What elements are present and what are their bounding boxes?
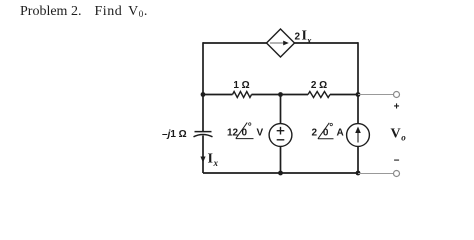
wire: middle vertical upper (node to voltage source) <box>280 95 282 124</box>
svg-text:x: x <box>306 36 312 46</box>
svg-text:−: − <box>394 156 400 167</box>
voltage source minus sign <box>277 139 285 141</box>
wire: right vertical lower (current source to bottom rail) <box>357 146 359 173</box>
svg-text:x: x <box>213 158 219 168</box>
svg-text:+: + <box>394 102 400 113</box>
svg-text:o: o <box>401 132 406 142</box>
wire: right vertical upper (top rail to current source) <box>357 42 359 123</box>
node dot center-bottom <box>278 171 283 176</box>
svg-text:0: 0 <box>242 127 248 138</box>
node dot center-mid <box>278 92 283 97</box>
wire: middle rail with resistor gaps <box>203 94 358 96</box>
terminal lower open circle <box>394 171 400 177</box>
node dot right-mid <box>356 92 361 97</box>
wire: bottom rail <box>203 172 358 174</box>
capacitor -j1 ohm top plate <box>195 131 212 133</box>
svg-text:2 Ω: 2 Ω <box>311 80 327 91</box>
svg-text:–j1 Ω: –j1 Ω <box>162 129 187 140</box>
svg-text:1 Ω: 1 Ω <box>233 80 249 91</box>
wire: left vertical upper (top rail to capacitor) <box>202 42 204 131</box>
wire: thin lead to lower terminal <box>358 173 393 175</box>
svg-text:°: ° <box>248 122 252 133</box>
dependent source arrow <box>270 42 284 44</box>
wire: top rail right segment <box>295 42 359 44</box>
wire: top rail left segment <box>203 42 267 44</box>
capacitor -j1 ohm bottom curved plate <box>194 135 213 137</box>
svg-text:2: 2 <box>295 32 301 43</box>
svg-text:2: 2 <box>312 128 318 139</box>
svg-text:V: V <box>257 127 264 138</box>
dependent current source diamond 2Ix <box>267 29 295 57</box>
svg-text:0: 0 <box>323 128 329 139</box>
svg-text:A: A <box>337 128 344 139</box>
node dot right-bottom <box>356 171 361 176</box>
terminal upper open circle <box>394 92 400 98</box>
svg-text:V: V <box>391 126 401 141</box>
svg-text:I: I <box>208 152 213 167</box>
wire: middle vertical lower (voltage source to bottom rail) <box>280 146 282 173</box>
title: Problem 2. Find V0. <box>20 4 148 20</box>
wire: thin lead to upper terminal <box>358 94 393 96</box>
node dot left-mid <box>201 92 206 97</box>
wire: left vertical lower (capacitor to bottom rail) <box>202 136 204 174</box>
svg-text:°: ° <box>329 122 333 133</box>
resistor R 2ohm zigzag <box>308 92 330 98</box>
voltage source plus sign <box>277 127 285 135</box>
current source I1 circle <box>347 124 370 147</box>
current source arrow shaft <box>357 132 359 143</box>
Ix arrow on left branch <box>200 157 205 163</box>
voltage source V1 circle <box>269 124 292 147</box>
current source arrowhead <box>355 127 361 134</box>
resistor R 1ohm zigzag <box>233 92 252 98</box>
